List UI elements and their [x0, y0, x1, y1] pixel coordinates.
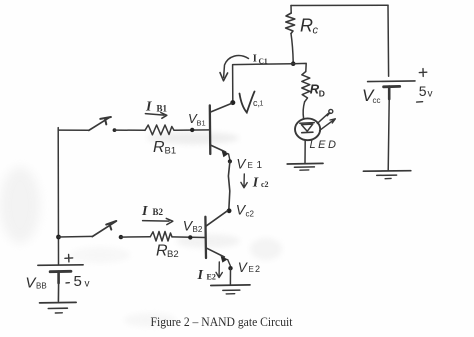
switch B right terminal [119, 235, 123, 239]
resistor RC [286, 13, 295, 34]
battery VBB plates [38, 265, 83, 283]
wire switch B to RB2 [121, 236, 150, 238]
label RB1 [153, 139, 176, 157]
switch B arm [92, 222, 115, 237]
label VC2 [236, 202, 255, 219]
node RC/RD junction [291, 61, 296, 66]
svg-text:I: I [253, 53, 257, 64]
label IC2 [252, 176, 269, 191]
switch B arrowhead [106, 221, 116, 230]
wire node to VC1 corner [233, 64, 294, 101]
svg-text:E2: E2 [207, 273, 216, 282]
svg-text:5: 5 [419, 83, 427, 99]
node VB1 [190, 128, 194, 132]
node VC1 [230, 100, 235, 105]
svg-text:c: c [313, 25, 319, 37]
label VCC [362, 86, 381, 105]
transistor Q2 collector [206, 211, 228, 227]
switch A wire stub [58, 129, 89, 131]
label Rc [300, 16, 319, 37]
resistor RB2 [150, 232, 172, 242]
svg-text:R: R [300, 16, 313, 36]
svg-text:I: I [141, 204, 148, 219]
label RD [310, 82, 325, 99]
label VB2 [183, 217, 203, 234]
wire top-left corner into RC [290, 6, 292, 14]
wire top rail [291, 4, 388, 6]
svg-text:c2: c2 [261, 180, 269, 189]
minus sign VBB [66, 282, 69, 284]
plus sign VBB [65, 254, 73, 262]
wire VCC to ground [388, 99, 389, 171]
wire LED to ground [304, 140, 306, 163]
transistor Q2 bar [204, 217, 207, 258]
transistor Q1 bar [209, 105, 212, 154]
svg-text:B1: B1 [157, 104, 168, 114]
svg-text:V: V [236, 157, 247, 172]
node VB2 [188, 235, 192, 239]
ground (VBB) [40, 302, 77, 313]
wire right rail down to VCC [387, 5, 390, 76]
label RB2 [156, 243, 179, 260]
wire VE1 to VC2 [228, 161, 230, 208]
transistor Q1 emitter [210, 145, 230, 160]
switch A arm [89, 118, 109, 131]
label IC1 [253, 53, 268, 65]
switch A right terminal [113, 128, 117, 132]
node VC2 [227, 208, 232, 213]
current arrow IB2 [143, 218, 173, 224]
wire VE2 to ground [229, 268, 231, 284]
svg-text:LED: LED [310, 139, 339, 151]
label IB2 [141, 204, 164, 219]
label VE1 [236, 157, 262, 172]
battery VCC plates [368, 81, 415, 99]
switch A arrowhead [100, 117, 111, 124]
label 5v (VCC) [419, 83, 433, 99]
label VE2 [238, 260, 260, 275]
ground (Q2 emitter) [211, 285, 250, 294]
LED D1 body [295, 118, 320, 140]
svg-text:B2: B2 [153, 207, 164, 217]
wire left rail [57, 128, 59, 265]
wire switch A to RB1 [115, 129, 146, 131]
LED light arrow 2 [320, 119, 336, 131]
node switch B tap [56, 235, 61, 240]
svg-text:E: E [248, 161, 253, 170]
svg-text:B2: B2 [167, 249, 179, 260]
label IB1 [145, 100, 168, 115]
svg-text:Figure 2 – NAND gate Circuit: Figure 2 – NAND gate Circuit [151, 314, 293, 329]
switch B wire stub [59, 235, 93, 238]
svg-text:I: I [252, 176, 259, 191]
transistor Q1 collector [210, 103, 232, 112]
label VBB [25, 275, 46, 292]
svg-text:B1: B1 [197, 119, 206, 128]
svg-text:I: I [197, 268, 204, 283]
svg-text:c2: c2 [246, 210, 255, 219]
current arrow IB1 [145, 113, 166, 119]
wire RC bottom to node [291, 34, 293, 62]
node VE2 [228, 266, 232, 270]
LED diode symbol [300, 123, 314, 133]
svg-text:V: V [238, 260, 249, 275]
node VE1 [228, 159, 232, 163]
ground (LED) [287, 163, 323, 170]
current arrow IC2 [241, 174, 247, 188]
svg-text:E: E [249, 265, 254, 274]
svg-text:1: 1 [260, 101, 264, 108]
wire RB1 to Q1 base [174, 129, 209, 131]
svg-text:C1: C1 [259, 57, 268, 66]
current arrow IE2 [216, 262, 222, 278]
svg-text:R: R [153, 139, 165, 156]
svg-text:cc: cc [373, 96, 381, 105]
scan smudges (decorative) [0, 132, 282, 327]
svg-text:B1: B1 [165, 146, 177, 157]
wire RD to LED [303, 102, 305, 119]
wire RB2 to Q2 base [172, 236, 205, 239]
label VC1 [240, 92, 264, 113]
plus sign VCC [419, 69, 427, 77]
svg-text:B2: B2 [193, 225, 203, 234]
svg-text:D: D [319, 89, 325, 99]
wire VBB to ground [57, 283, 59, 301]
svg-text:I: I [145, 100, 152, 115]
svg-text:5: 5 [74, 273, 82, 290]
label VB1 [188, 111, 206, 127]
resistor RB1 [145, 125, 174, 135]
svg-text:BB: BB [36, 282, 47, 291]
svg-text:v: v [85, 279, 90, 290]
svg-text:1: 1 [257, 160, 263, 171]
label -5v (VBB) [74, 273, 90, 290]
resistor RD [302, 72, 310, 102]
wire node to RD top [293, 63, 306, 71]
svg-text:v: v [428, 89, 433, 100]
LED light arrow 1 [317, 109, 332, 123]
svg-text:2: 2 [255, 264, 260, 274]
transistor Q2 emitter [206, 248, 230, 266]
current arrow IC1 [220, 56, 249, 81]
label IE2 [197, 268, 216, 283]
ground (VCC) [363, 171, 410, 179]
minus sign VCC [417, 101, 423, 103]
